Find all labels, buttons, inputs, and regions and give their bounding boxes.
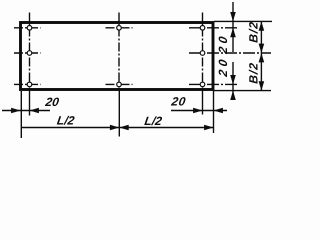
arrow up at row1 (dim 20 #1) bbox=[230, 28, 236, 37]
dim B/2 vertical line bbox=[260, 21, 262, 90]
centerline row1 tick col2 bbox=[106, 27, 133, 29]
extension col2 below bbox=[118, 91, 120, 137]
centerline col2 bbox=[118, 13, 120, 92]
extension col1 below bbox=[29, 91, 31, 116]
extension right edge down bbox=[213, 91, 215, 133]
centerline row1 tick col3 + extension bbox=[189, 27, 237, 29]
arrow up at row2 (dim B/2 #2) bbox=[259, 53, 265, 62]
svg-text:L/2: L/2 bbox=[56, 114, 76, 128]
dim 20 bottom-right vertical line bbox=[232, 62, 234, 100]
centerline row2 tick col3 + extension bbox=[189, 52, 271, 54]
centerline row3 tick col3 + extension bbox=[189, 83, 237, 85]
hole A1 bbox=[27, 26, 32, 31]
dim row B L/2 line bbox=[21, 127, 213, 129]
svg-text:B/2: B/2 bbox=[247, 21, 261, 44]
plate outline bbox=[21, 23, 214, 90]
dim 20 top-right vertical line bbox=[232, 2, 234, 52]
centerline col1 bbox=[29, 13, 31, 92]
arrow down at top edge (dim 20 #1) bbox=[230, 12, 236, 21]
hole B3 bbox=[200, 51, 205, 56]
arrow down at row3 (dim 20 #2) bbox=[230, 75, 236, 84]
centerline row1 tick col1 bbox=[14, 27, 41, 29]
dim row A left line bbox=[2, 110, 50, 112]
arrow right at right edge (dim L/2 right) bbox=[204, 125, 213, 131]
hole C1 bbox=[27, 82, 32, 87]
arrow up at bottom edge (dim 20 #2) bbox=[230, 91, 236, 100]
extension col3 below bbox=[202, 91, 204, 115]
arrow right at col2 (dim L/2 left) bbox=[110, 125, 119, 131]
hole A3 bbox=[200, 26, 205, 31]
hole B1 bbox=[27, 51, 32, 56]
arrow left at col2 (dim L/2 right) bbox=[119, 125, 128, 131]
hole A2 bbox=[117, 26, 122, 31]
svg-text:20: 20 bbox=[216, 55, 230, 78]
arrow left at right edge (dim 20 bottom-right) bbox=[214, 108, 223, 114]
arrow right at left edge (dim 20 bottom-left) bbox=[11, 108, 20, 114]
centerline col3 bbox=[202, 13, 204, 92]
centerline row3 tick col2 bbox=[106, 83, 133, 85]
svg-text:20: 20 bbox=[216, 32, 230, 55]
centerline row2 tick col1 bbox=[14, 52, 41, 54]
top edge extension right bbox=[214, 20, 272, 22]
centerline row3 tick col1 bbox=[14, 83, 41, 85]
extension left edge down bbox=[20, 91, 22, 138]
bottom edge extension right bbox=[214, 90, 271, 92]
dim row A right line bbox=[171, 110, 227, 112]
hole C3 bbox=[200, 82, 205, 87]
svg-text:L/2: L/2 bbox=[144, 114, 164, 128]
svg-text:20: 20 bbox=[44, 95, 61, 109]
arrow left at col1 (dim 20 bottom-left) bbox=[30, 108, 39, 114]
arrow up at top edge (dim B/2 #1) bbox=[259, 21, 265, 30]
svg-text:20: 20 bbox=[170, 94, 187, 108]
arrow right at col3 (dim 20 bottom-right) bbox=[193, 108, 202, 114]
hole C2 bbox=[117, 82, 122, 87]
arrow down at row2 (dim B/2 #1) bbox=[259, 44, 265, 53]
svg-text:B/2: B/2 bbox=[247, 62, 261, 85]
arrow down at bottom edge (dim B/2 #2) bbox=[259, 81, 265, 90]
